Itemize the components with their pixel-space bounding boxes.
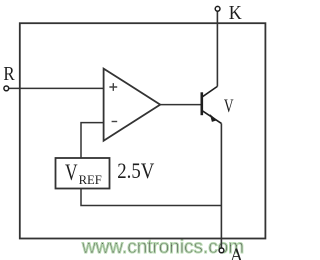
transistor collector (202, 86, 218, 97)
emitter arrow (210, 114, 217, 122)
terminal K (215, 6, 220, 11)
svg-text:2.5V: 2.5V (117, 158, 154, 183)
svg-text:K: K (229, 3, 242, 24)
op-amp minus marker (112, 121, 118, 123)
op-amp U1 (104, 69, 161, 141)
wire: VREF to anode rail (81, 189, 222, 206)
terminal R (4, 86, 9, 91)
wire: R input to op-amp + (8, 87, 103, 89)
svg-text:V: V (224, 96, 234, 117)
wire: inverting input to VREF (81, 123, 104, 158)
svg-text:A: A (230, 245, 243, 260)
voltage reference VREF box (56, 158, 110, 189)
wire: op-amp output to base (160, 104, 202, 106)
terminal A (219, 248, 224, 253)
transistor emitter (202, 110, 222, 123)
wire: emitter to A terminal (220, 123, 222, 248)
op-amp plus marker (109, 83, 117, 91)
device outline box (20, 23, 266, 238)
wire: collector to K terminal (216, 11, 218, 86)
transistor V base bar (201, 92, 204, 115)
svg-text:www.cntronics.com: www.cntronics.com (81, 237, 244, 258)
svg-text:R: R (3, 63, 15, 85)
